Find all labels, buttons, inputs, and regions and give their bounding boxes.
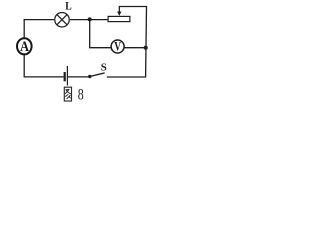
svg-text:S: S [101,63,107,74]
svg-text:8: 8 [78,87,84,104]
svg-text:L: L [65,0,72,12]
svg-text:A: A [20,39,29,55]
svg-text:V: V [114,39,121,54]
